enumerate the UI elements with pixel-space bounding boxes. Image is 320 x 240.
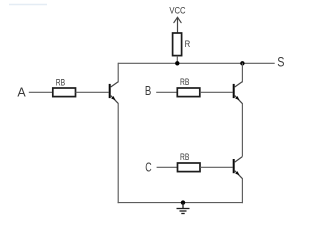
wire: RB to Q2 base [200,91,233,93]
wire: Q2 collector riser [241,63,243,83]
wire: Q1 collector riser [117,63,119,83]
resistor RB (input A) [53,88,76,97]
ground symbol [177,203,190,214]
svg-text:RB: RB [180,152,189,162]
svg-text:B: B [145,83,152,98]
faint artifact line top-left [9,4,47,6]
wire: RB to Q1 base [76,91,109,93]
wire: bottom ground rail [118,202,243,204]
wire: Q1 emitter drop [117,103,119,203]
junction node: Q2 collector / rail [240,61,244,65]
svg-text:RB: RB [56,78,65,88]
resistor RB (input C) [178,163,201,172]
svg-text:S: S [277,54,284,70]
svg-text:A: A [17,85,25,100]
wire: RB to Q3 base [200,166,233,168]
transistor Q3 (input C, npn) [233,157,243,179]
transistor Q2 (input B, npn) [233,82,243,104]
wire: top output rail [118,62,275,64]
wire: R bottom to output rail [176,56,178,64]
wire: B to RB [156,91,177,93]
resistor R (pull-up) [173,33,182,56]
resistor RB (input B) [177,88,200,97]
transistor Q1 (input A, npn) [109,82,119,104]
junction node: R / rail [175,61,179,65]
wire: C to RB [157,166,178,168]
wire: Q3 emitter drop [241,178,243,203]
svg-text:VCC: VCC [169,5,186,15]
wire: A to RB [29,91,53,93]
svg-text:R: R [185,39,191,49]
junction node: ground tap [181,200,185,204]
wire: Q2 emitter to Q3 collector [241,103,243,157]
svg-text:C: C [145,159,152,174]
svg-text:RB: RB [180,77,189,87]
VCC power arrow symbol [174,17,181,33]
